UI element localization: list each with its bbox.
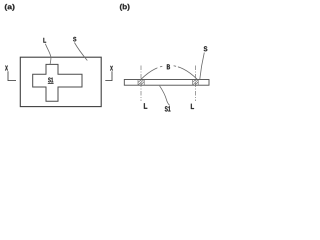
centerline right dash-dot (fig b) — [194, 66, 196, 102]
label L (fig b left) — [144, 103, 147, 108]
substrate outline S (rectangle, fig a) — [20, 57, 101, 106]
figure label (b) — [120, 4, 130, 11]
cross-shaped layer L (fig a) — [33, 64, 82, 101]
substrate bar S in section (fig b) — [124, 80, 209, 86]
arc dash left of B — [160, 65, 162, 68]
gap in arc for label B — [157, 60, 178, 73]
figure label (a) — [5, 4, 15, 11]
label S1 (fig a center) — [48, 78, 53, 83]
section label X left — [5, 66, 8, 71]
section label X right — [110, 66, 113, 71]
leader line from S to bar (fig b) — [200, 53, 205, 80]
leader line from L to cross (fig a) — [45, 44, 51, 64]
section bracket right (fig a) — [105, 71, 112, 80]
centerline left dash-dot (fig b) — [140, 66, 142, 102]
hatched layer section L left (fig b) — [138, 80, 144, 86]
label B (bow) — [167, 64, 170, 69]
arc dash right of B — [174, 65, 177, 68]
label S1 (fig b) — [165, 106, 171, 111]
label L (fig a top) — [43, 38, 46, 43]
leader line from S into rectangle (fig a) — [74, 43, 87, 61]
section bracket left (fig a) — [8, 71, 16, 80]
bow arc B (fig b) — [141, 65, 197, 79]
hatched layer section L right (fig b) — [193, 80, 199, 86]
label S (fig b) — [204, 46, 208, 51]
label L (fig b right) — [191, 104, 194, 109]
label S (fig a top) — [73, 37, 76, 42]
leader line from bar to S1 (fig b) — [160, 86, 170, 106]
underline of S1 (fig a center) — [48, 83, 54, 85]
